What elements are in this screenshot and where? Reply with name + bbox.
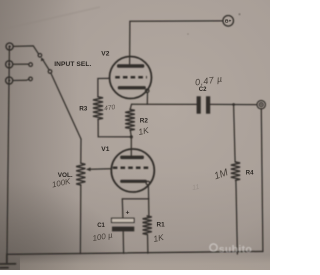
- wire: junction down to R4: [234, 105, 236, 163]
- junction dot R4 tap: [232, 103, 235, 106]
- wire: down to R2 top: [130, 104, 132, 109]
- capacitor C2 left plate: [197, 96, 201, 113]
- capacitor C2 right plate: [206, 96, 210, 113]
- wire: jack column vertical down to ground rail: [7, 47, 9, 255]
- wire: pot bottom lead to rail: [79, 185, 81, 254]
- pot wiper arrow from V1 grid: [90, 168, 112, 171]
- svg-text:C1: C1: [97, 223, 105, 229]
- wire: V2 cathode down to coupling line: [146, 93, 148, 105]
- wire: jack1 to switch contact 1: [13, 46, 39, 54]
- capacitor C1 bottom plate (solid): [112, 227, 134, 232]
- wire: C2 to output jack: [210, 103, 256, 105]
- wire: junction down to V1 plate: [130, 137, 132, 156]
- wire: jack3 to switch contact 3: [13, 79, 29, 80]
- input jack J1: [6, 43, 13, 50]
- input jack J2: [6, 61, 13, 68]
- capacitor C1 top plate (hollow): [112, 218, 135, 222]
- wire: output jack shield down to rail: [261, 109, 263, 252]
- V2 cathode bar: [118, 86, 146, 89]
- junction dot plate node: [130, 135, 133, 138]
- resistor R1: [143, 216, 152, 235]
- svg-text:11: 11: [192, 184, 200, 192]
- resistor R4: [231, 162, 240, 180]
- switch wiper arrow: [43, 60, 49, 70]
- triode V2 envelope: [110, 57, 152, 99]
- B+ terminal: [223, 15, 234, 26]
- V2 plate bar: [117, 64, 144, 67]
- wire: down to C1: [121, 199, 124, 218]
- wire: pot top lead: [80, 139, 82, 163]
- svg-text:R2: R2: [140, 117, 149, 124]
- wire: jack2 to switch contact 2: [13, 63, 29, 65]
- V1 grid (dashed): [113, 167, 152, 170]
- resistor R3: [93, 97, 103, 120]
- V1 cathode terminal circle: [146, 181, 150, 185]
- top crease shadow: [0, 7, 100, 30]
- wire: R4 bottom to rail: [236, 180, 238, 254]
- input jack J3: [6, 77, 13, 84]
- switch contact 1: [38, 54, 42, 58]
- svg-text:B+: B+: [225, 19, 232, 25]
- light strip along bottom edge: [0, 0, 1, 1]
- svg-text:R3: R3: [79, 106, 88, 113]
- ground rail (bottom horizontal): [7, 251, 263, 254]
- triode V1 envelope: [111, 149, 154, 192]
- V2 grid (dashed): [115, 76, 147, 79]
- svg-text:subito: subito: [219, 243, 252, 255]
- svg-text:INPUT SEL.: INPUT SEL.: [54, 61, 91, 68]
- wire: C1 bottom to rail: [122, 231, 124, 253]
- wire: R1 bottom to rail: [147, 235, 149, 254]
- V1 plate bar: [120, 156, 144, 160]
- paper speck: [187, 33, 189, 35]
- output jack: [257, 101, 265, 109]
- wire: V2 grid to R3: [98, 78, 110, 96]
- V1 cathode bar: [120, 180, 147, 183]
- V2 cathode terminal circle: [145, 89, 149, 93]
- wire: bypass branch horizontal: [122, 198, 149, 200]
- svg-text:V2: V2: [101, 51, 109, 58]
- svg-text:R4: R4: [246, 170, 254, 176]
- switch contact 2: [29, 63, 33, 67]
- svg-text:C2: C2: [199, 87, 207, 93]
- wire: V1 cathode down to R1: [147, 185, 150, 216]
- switch contact 3: [29, 77, 33, 81]
- svg-text:V1: V1: [101, 146, 109, 153]
- ground symbol: [0, 254, 16, 268]
- subito watermark: [0, 0, 1, 1]
- resistor R2: [125, 110, 135, 131]
- wire: R3 bottom to plate junction: [98, 119, 131, 137]
- switch pivot: [48, 70, 52, 74]
- svg-text:R1: R1: [157, 221, 166, 228]
- wire: V2 plate up to B+ rail: [130, 21, 223, 64]
- wire: R2 bottom to junction: [130, 130, 131, 137]
- svg-text:+: +: [126, 210, 130, 217]
- wire: switch pivot down to volume pot: [51, 73, 81, 139]
- potentiometer VOL 100K: [76, 163, 85, 185]
- wire: cathode follower output line to C2: [132, 103, 197, 105]
